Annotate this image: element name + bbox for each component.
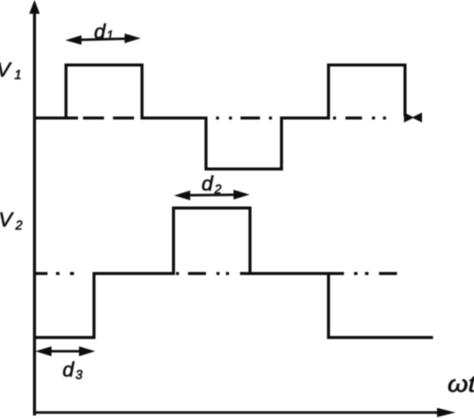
svg-text:V: V [0,59,13,82]
svg-text:V: V [0,209,15,232]
svg-text:d: d [202,172,214,195]
waveform V1 [35,65,406,169]
waveform V2 [35,208,434,338]
label d2 [202,172,222,196]
x-axis arrowhead [437,408,456,417]
svg-text:3: 3 [76,368,83,382]
svg-text:ωt: ωt [448,373,474,398]
label V2 [0,209,23,233]
svg-text:1: 1 [107,29,114,43]
y-axis arrowhead [29,0,40,14]
label d1 [94,20,113,43]
svg-text:2: 2 [214,183,222,197]
svg-text:d: d [63,359,75,382]
svg-text:2: 2 [15,219,23,233]
wire: V2 zero reference right of last step [329,272,398,275]
dimension arrow d3 [35,346,95,356]
wire: V1 zero reference dash-dot under pulse 1 [66,117,134,120]
svg-text:1: 1 [15,68,22,82]
wire: V1 zero reference dash-dot under negative pulse [216,117,272,120]
y-axis [33,11,36,416]
wire: V2 zero reference dash-dot under positive pulse [176,272,250,275]
wire: V2 zero reference left of first step [33,272,74,275]
label d3 [63,359,83,383]
dimension arrow d2 [174,190,250,200]
V1 end marker (bowtie) [405,113,422,121]
dimension arrow d1 [65,34,141,45]
x-axis (wt axis) [33,411,439,414]
label V1 [0,59,21,83]
wire: V1 zero reference dash-dot under pulse 3 [333,117,386,120]
svg-text:d: d [94,20,106,43]
